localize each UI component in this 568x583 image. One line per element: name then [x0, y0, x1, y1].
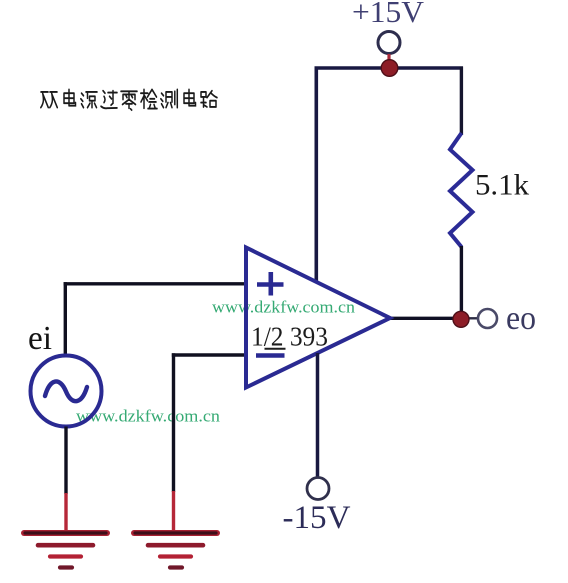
terminal circle +15V	[378, 32, 400, 54]
junction dot at output node	[453, 311, 469, 327]
wire: rail down to op-amp V+ pin	[314, 67, 318, 284]
wire: − input horizontal	[172, 353, 246, 356]
wire: +15V terminal stub (red)	[387, 54, 390, 64]
op-amp label underline	[265, 348, 286, 350]
op-amp U1 body	[246, 248, 390, 388]
resistor R1 zigzag	[450, 133, 473, 247]
op-amp + input symbol	[257, 272, 284, 296]
source ei sine wave	[45, 381, 87, 401]
svg-text:ei: ei	[28, 320, 52, 357]
ground G2	[134, 533, 217, 568]
terminal circle eo	[478, 309, 497, 328]
svg-text:-15V: -15V	[283, 500, 351, 536]
source ei circle	[31, 356, 102, 427]
terminal circle −15V	[307, 478, 329, 500]
svg-text:+15V: +15V	[352, 0, 425, 29]
wire: − input down to ground (black part)	[172, 353, 175, 492]
wire: source ei up to + input	[64, 282, 67, 356]
junction dot on +15V rail	[381, 60, 398, 77]
op-amp − input symbol	[256, 353, 285, 358]
svg-text:5.1k: 5.1k	[475, 169, 529, 202]
ground G1	[24, 533, 107, 568]
wire: op-amp V− pin to −15V	[316, 353, 320, 478]
wire: + input horizontal	[64, 282, 246, 285]
svg-text:eo: eo	[506, 300, 536, 337]
wire: top rail horizontal	[315, 66, 464, 70]
wire: − input ground (red part)	[172, 491, 175, 531]
wire: source ei to ground (black part)	[64, 427, 67, 495]
wire: output node stub to eo terminal	[466, 317, 478, 319]
title text: 双电源过零检测电路 (drawn strokes)	[41, 89, 217, 110]
wire: resistor R1 to output node	[460, 246, 463, 318]
wire: rail down to resistor R1	[460, 67, 463, 136]
svg-text:1/2 393: 1/2 393	[251, 322, 328, 352]
wire: source ei to ground (red part)	[64, 493, 67, 531]
svg-text:www.dzkfw.com.cn: www.dzkfw.com.cn	[212, 298, 355, 317]
wire: op-amp output	[389, 317, 456, 320]
